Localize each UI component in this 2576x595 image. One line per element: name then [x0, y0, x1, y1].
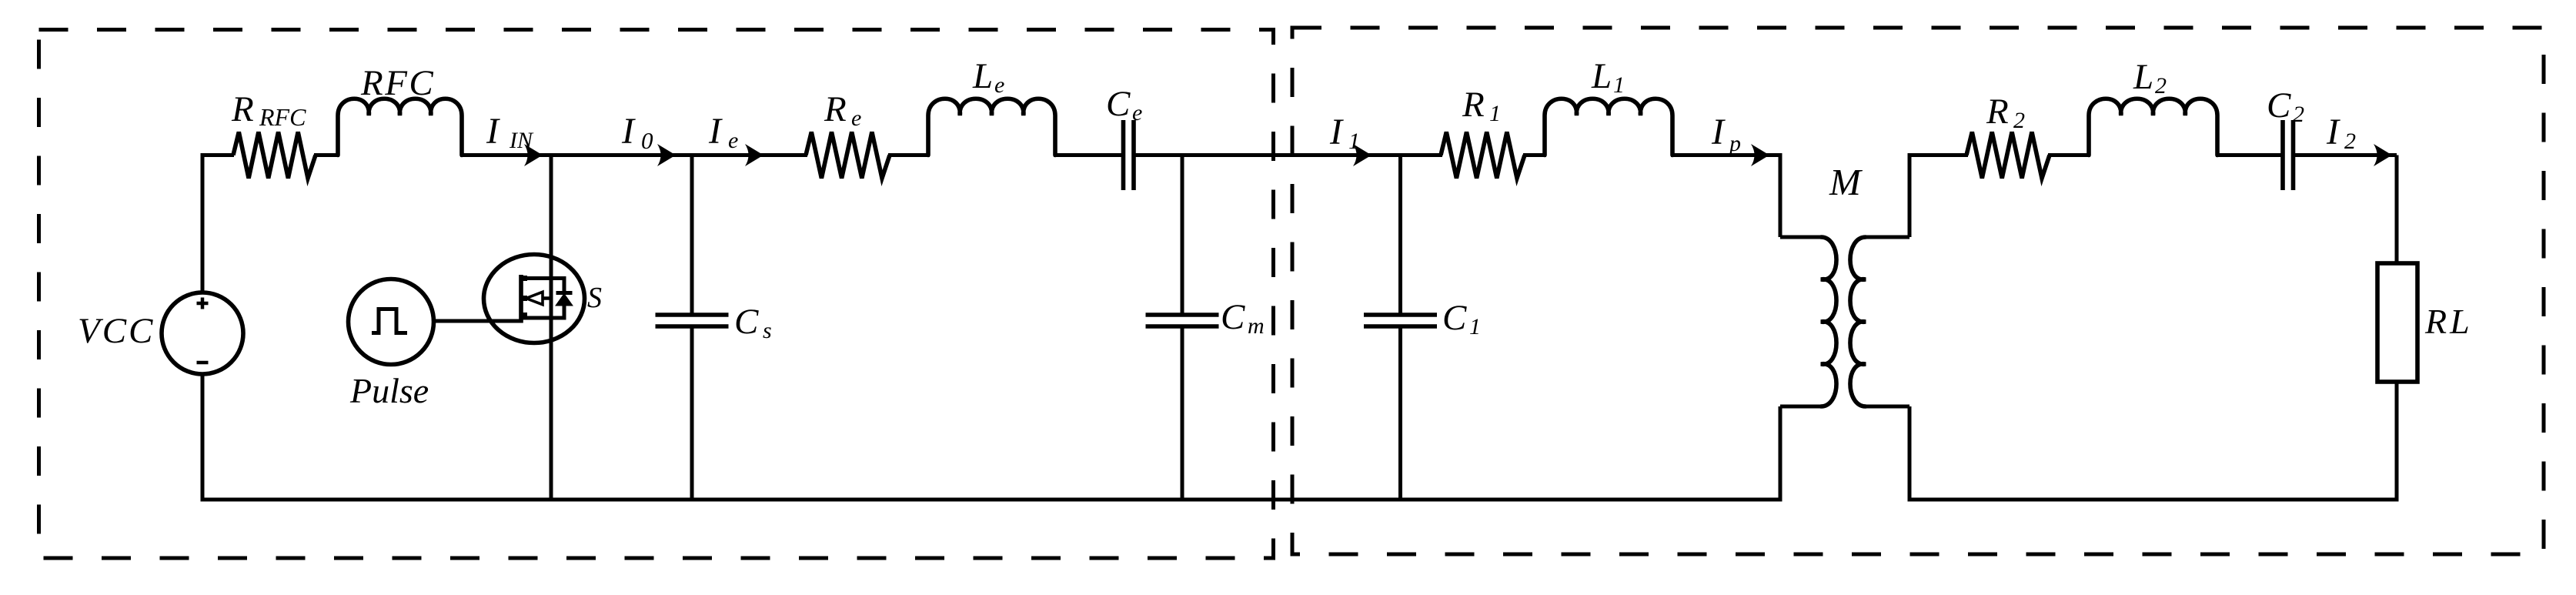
wire: R_1 to L_1 — [1523, 153, 1546, 157]
wire: L_2 to C_2 — [2216, 153, 2283, 157]
svg-text:I: I — [2326, 112, 2340, 152]
wire: secondary bottom horizontal — [1866, 405, 1909, 409]
VCC minus sign — [197, 361, 209, 365]
capacitor C_s bottom plate — [656, 324, 729, 329]
wire: primary bottom horizontal — [1780, 405, 1821, 409]
svg-text:C: C — [2267, 85, 2291, 125]
pulse source circle — [349, 279, 434, 365]
MOSFET channel bottom — [523, 316, 566, 320]
capacitor C_1 bottom plate — [1364, 324, 1437, 329]
inductor RFC — [338, 99, 462, 155]
capacitor C_s top plate — [656, 313, 729, 317]
wire: primary top vertical — [1779, 155, 1782, 238]
wire: C_1 branch top — [1398, 155, 1402, 316]
svg-text:2: 2 — [2344, 129, 2356, 154]
wire: C_m branch bottom — [1181, 326, 1184, 500]
resistor R_1 — [1441, 132, 1525, 179]
svg-text:VCC: VCC — [78, 311, 155, 351]
resistor R_e — [806, 132, 890, 179]
MOSFET body arrow lead — [543, 296, 551, 300]
arrow I_e — [745, 144, 763, 166]
arrow I_1 — [1353, 144, 1372, 166]
svg-text:s: s — [763, 318, 772, 343]
arrow I_p — [1751, 144, 1769, 166]
svg-text:RL: RL — [2424, 302, 2473, 341]
svg-text:1: 1 — [1469, 314, 1481, 339]
svg-text:I: I — [486, 111, 500, 152]
capacitor C_2 right plate — [2291, 120, 2296, 190]
svg-text:Pulse: Pulse — [349, 371, 429, 410]
wire: pulse to gate — [433, 319, 521, 323]
svg-text:m: m — [1248, 313, 1265, 339]
arrow I_0 — [657, 144, 676, 166]
svg-text:I: I — [621, 111, 636, 152]
arrow I_2 — [2374, 144, 2392, 166]
svg-text:2: 2 — [2013, 108, 2025, 133]
wire: RFC to drain node — [460, 153, 553, 157]
wire: R_RFC to RFC — [314, 153, 339, 157]
svg-text:R: R — [1462, 85, 1485, 125]
dashed box: class-E inverter stage (left) — [39, 30, 1274, 559]
capacitor C_e left plate — [1121, 120, 1126, 190]
inductor L_e — [928, 99, 1055, 155]
wire: primary bottom vertical — [1779, 406, 1782, 500]
svg-text:C: C — [734, 302, 759, 342]
svg-text:RFC: RFC — [259, 103, 306, 131]
wire: RL bottom vertical — [2395, 382, 2399, 500]
svg-text:e: e — [994, 72, 1004, 98]
svg-text:p: p — [1728, 131, 1741, 156]
svg-text:e: e — [851, 105, 861, 131]
wire: RL top vertical — [2395, 155, 2399, 266]
MOSFET gate nub bottom — [521, 313, 527, 318]
dashed box: resonant tank / rectifier stage (right) — [1292, 28, 2544, 554]
resistor R_RFC — [233, 132, 316, 179]
svg-text:2: 2 — [2155, 73, 2167, 99]
wire: VCC bottom vertical — [201, 374, 205, 500]
svg-text:2: 2 — [2293, 102, 2304, 127]
wire: L_1 to transformer — [1671, 153, 1782, 157]
wire: C_2 to RL corner — [2294, 153, 2397, 157]
svg-text:e: e — [1132, 100, 1142, 125]
MOSFET channel top — [523, 276, 566, 280]
wire: C_m branch top — [1181, 155, 1184, 316]
svg-text:R: R — [824, 89, 847, 129]
wire: top wire VCC corner to R_RFC — [201, 153, 235, 157]
MOSFET gate bar — [519, 275, 523, 323]
transformer secondary coil — [1850, 237, 1866, 406]
wire: secondary bottom vertical — [1908, 406, 1912, 500]
inductor L_2 — [2089, 99, 2217, 155]
MOSFET body diode triangle — [556, 295, 572, 306]
wire: C_1 branch bottom — [1398, 326, 1402, 500]
MOSFET gate nub mid — [521, 296, 527, 301]
svg-text:M: M — [1829, 161, 1863, 203]
VCC plus sign — [197, 302, 209, 306]
wire: C_s branch top — [690, 155, 694, 316]
svg-text:C: C — [1442, 298, 1467, 338]
wire: VCC top vertical — [201, 155, 205, 293]
svg-text:0: 0 — [641, 127, 653, 154]
capacitor C_e right plate — [1131, 120, 1136, 190]
resistor RL box — [2377, 263, 2417, 382]
inductor L_1 — [1545, 99, 1672, 155]
svg-text:S: S — [587, 282, 602, 314]
wire: C_1 node to R_1 — [1401, 153, 1443, 157]
wire: R_e to L_e — [888, 153, 930, 157]
svg-text:L: L — [1591, 56, 1612, 96]
MOSFET gate nub top — [521, 276, 527, 281]
MOSFET right branch vertical top — [563, 276, 566, 293]
wire: secondary top vertical — [1908, 155, 1912, 238]
wire: C_e to I_1 region — [1134, 153, 1401, 157]
svg-text:I: I — [1711, 112, 1726, 152]
MOSFET body diode cathode bar — [556, 291, 573, 295]
wire: secondary-side bottom — [1908, 498, 2399, 502]
svg-text:I: I — [708, 111, 723, 152]
wire: C_s branch bottom — [690, 326, 694, 500]
svg-text:RFC: RFC — [360, 63, 435, 103]
wire: secondary to R_2 — [1908, 153, 1969, 157]
svg-text:L: L — [972, 56, 993, 96]
wire: R_2 to L_2 — [2048, 153, 2090, 157]
wire: L_e to C_e — [1054, 153, 1124, 157]
arrow I_IN — [524, 144, 543, 166]
wire: secondary top horizontal — [1866, 236, 1909, 239]
svg-text:L: L — [2133, 57, 2153, 97]
wire: primary top horizontal — [1780, 236, 1821, 239]
voltage source VCC circle — [162, 292, 243, 374]
capacitor C_1 top plate — [1364, 313, 1437, 317]
transformer primary coil — [1821, 237, 1836, 406]
svg-text:R: R — [1986, 92, 2009, 132]
MOSFET S circle — [484, 255, 585, 343]
svg-text:R: R — [231, 89, 254, 129]
svg-text:I: I — [1329, 112, 1344, 152]
resistor R_2 — [1966, 132, 2050, 179]
MOSFET right branch vertical bottom — [563, 305, 566, 320]
svg-text:e: e — [728, 128, 738, 153]
MOSFET body arrow (points left) — [526, 292, 543, 304]
svg-text:C: C — [1221, 297, 1245, 337]
svg-text:1: 1 — [1489, 101, 1501, 126]
wire: primary-side bottom — [201, 498, 1782, 502]
capacitor C_m bottom plate — [1146, 324, 1219, 329]
svg-text:1: 1 — [1613, 72, 1625, 98]
wire: MOSFET drain vertical — [550, 155, 553, 500]
capacitor C_2 left plate — [2280, 120, 2285, 190]
svg-text:C: C — [1106, 84, 1131, 124]
capacitor C_m top plate — [1146, 313, 1219, 317]
wire: drain node to R_e — [551, 153, 807, 157]
pulse waveform glyph — [372, 309, 407, 333]
